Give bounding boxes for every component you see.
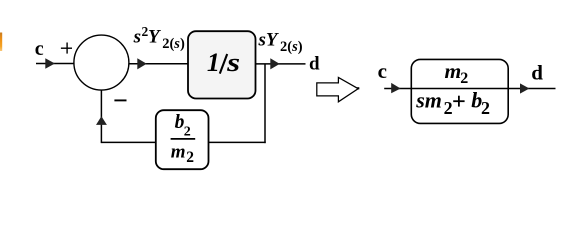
svg-text:s: s (133, 27, 141, 48)
arrowhead: integrator output (270, 58, 279, 69)
wire: feedback bottom run (101, 141, 265, 143)
orange edge artifact (0, 33, 2, 52)
svg-text:2: 2 (460, 70, 468, 87)
plus sign at summer input (61, 47, 72, 49)
fraction bar of b2/m2 (171, 138, 196, 140)
svg-text:2: 2 (184, 124, 191, 139)
wire: right input, fraction bar through block, right output (384, 88, 555, 90)
summing junction S1 (74, 35, 129, 90)
svg-text:2(s): 2(s) (162, 36, 185, 52)
arrowhead: feedback into summer (96, 116, 107, 125)
svg-text:c: c (35, 38, 44, 60)
svg-text:m: m (171, 142, 186, 163)
wire: summer output to integrator (129, 63, 188, 65)
svg-text:m: m (445, 59, 462, 83)
svg-text:c: c (378, 59, 387, 83)
block U1: integrator 1/s (188, 31, 256, 98)
block U2: equivalent m2/(s m2 + b2) (411, 59, 508, 123)
arrowhead: input into summer (45, 58, 55, 69)
svg-text:2: 2 (444, 98, 453, 118)
svg-text:s: s (226, 48, 240, 77)
arrowhead: right input (391, 83, 400, 93)
wire: feedback vertical drop (264, 64, 266, 143)
svg-text:2: 2 (186, 149, 194, 166)
equivalence arrow tip dot (357, 87, 359, 89)
wire: integrator output to node d (256, 63, 306, 65)
wire: input c to summer (36, 63, 75, 65)
minus sign at summer feedback input (114, 99, 126, 101)
svg-text:sY: sY (258, 30, 280, 51)
block H1: feedback b2/m2 (156, 110, 209, 169)
wire: feedback rise to summer (100, 90, 102, 143)
svg-text:1: 1 (207, 48, 220, 77)
svg-text:Y: Y (148, 27, 162, 48)
svg-text:2: 2 (481, 98, 490, 118)
svg-text:d: d (309, 53, 320, 74)
equivalence arrow (317, 77, 358, 101)
svg-text:2(s): 2(s) (280, 39, 303, 55)
svg-text:d: d (531, 60, 543, 84)
svg-text:sm: sm (415, 88, 442, 113)
arrowhead: summer output (137, 58, 146, 69)
arrowhead: right output (520, 83, 529, 93)
